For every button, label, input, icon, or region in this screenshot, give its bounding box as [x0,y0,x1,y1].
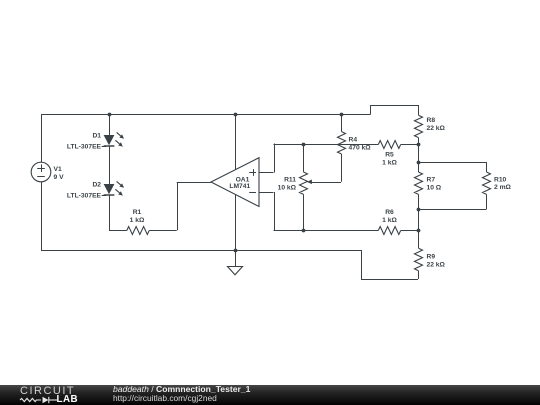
svg-text:R6: R6 [385,209,394,216]
svg-text:10 Ω: 10 Ω [427,185,442,192]
resistor R6 1 k [378,209,418,235]
svg-text:22 kΩ: 22 kΩ [427,262,446,269]
svg-text:10 kΩ: 10 kΩ [278,184,297,191]
svg-text:R11: R11 [284,176,296,183]
svg-text:LM741: LM741 [229,183,250,190]
potentiometer R11 10 k [278,144,341,231]
wire: V1 top lead [41,114,43,162]
wire: R10 bottom bridge [418,194,487,209]
svg-text:V1: V1 [54,166,62,173]
resistor R5 1 k [378,141,418,167]
footer bar [0,385,540,405]
svg-text:R4: R4 [349,137,358,144]
svg-text:LTL-307EE: LTL-307EE [67,143,102,150]
node: R4 top junction [340,113,344,117]
voltage source V1 [31,162,64,182]
svg-text:R9: R9 [427,254,436,261]
resistor R10 2 m [483,172,512,194]
node: D1 anode junction [108,113,112,117]
node: R6 right junction [417,229,421,233]
wire: D2 cathode lead down to R1 [109,195,111,230]
wire: op-amp power riser (x=235) [235,114,237,250]
footer text line 2 [113,393,217,403]
wire: ground rail [41,250,418,280]
wire: R10 top bridge [418,162,487,172]
wire: bottom net (y=230.3) to R6 [274,230,379,232]
node: R7 bottom bridge junction [417,208,421,212]
resistor R8 22 k [415,105,446,162]
node: R11 bottom junction [302,229,306,233]
CircuitLab logo text LAB [57,394,79,405]
CircuitLab logo text CIRCUIT [20,385,75,397]
svg-text:R10: R10 [494,176,507,183]
wire: op-amp output to R1 (feedback riser) [177,182,211,230]
node: R11 top junction [302,143,306,147]
svg-text:2 mΩ: 2 mΩ [494,184,512,191]
resistor R4 470 k [338,114,372,182]
svg-text:1 kΩ: 1 kΩ [130,217,145,224]
svg-text:LTL-307EE: LTL-307EE [67,192,102,199]
resistor R7 10 ohm [415,162,442,248]
op-amp OA1 LM741 [211,158,259,207]
svg-text:R5: R5 [385,152,394,159]
svg-text:1 kΩ: 1 kΩ [382,217,397,224]
svg-text:D2: D2 [92,182,101,189]
svg-text:22 kΩ: 22 kΩ [427,125,446,132]
wire: top supply rail [41,105,418,115]
svg-text:1 kΩ: 1 kΩ [382,160,397,167]
CircuitLab logo squiggle (resistor + diode) [19,394,61,405]
node: power riser junction on top rail [234,113,238,117]
svg-text:R1: R1 [133,209,142,216]
node: R5 right junction [417,143,421,147]
wire: mid net (y=143.5) to R5 [274,144,379,146]
LED D1 LTL-307EE [67,114,124,150]
wire: D1 cathode to D2 anode [109,146,111,184]
wire: op-amp - input to bottom net [259,192,275,230]
LED D2 LTL-307EE [67,181,124,199]
svg-text:R7: R7 [427,177,436,184]
wire: op-amp + input to mid net [259,144,275,173]
svg-text:D1: D1 [92,133,101,140]
node: ground junction [234,249,238,253]
svg-text:R8: R8 [427,117,436,124]
svg-text:9 V: 9 V [54,174,65,181]
node: R7 top bridge junction [417,161,421,165]
svg-text:470 kΩ: 470 kΩ [349,145,372,152]
resistor R1 1 k [109,209,177,235]
wire: V1 bottom lead [41,182,43,250]
footer text line 1 [113,384,250,394]
resistor R9 22 k [415,248,446,279]
ground [228,250,243,275]
